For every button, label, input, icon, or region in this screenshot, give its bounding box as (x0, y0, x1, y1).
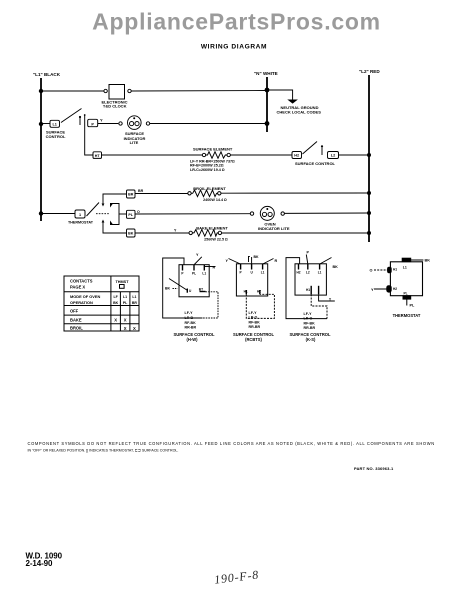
left terminal Y (387, 286, 391, 292)
wire to contact block (dotted) (96, 213, 110, 215)
junction L2-oven lite row (367, 211, 371, 215)
left outer wire (286, 258, 327, 319)
svg-text:BR: BR (138, 189, 144, 193)
svg-text:COMPONENT SYMBOLS DO NOT REFLE: COMPONENT SYMBOLS DO NOT REFLECT TRUE CO… (28, 441, 435, 446)
stub R right (205, 266, 216, 268)
blade R right (263, 259, 274, 265)
svg-text:BK: BK (425, 259, 431, 263)
svg-text:OPERATION: OPERATION (70, 300, 93, 305)
wire from left bottom terminal (311, 294, 327, 318)
svg-text:PL: PL (128, 213, 133, 217)
loop wires sub2 (246, 294, 274, 318)
box (179, 265, 209, 297)
contact tick with dot row2 (79, 116, 81, 118)
terminal circle clock left (104, 89, 107, 92)
svg-text:THERMOSTAT: THERMOSTAT (393, 313, 421, 318)
surface control sub-diagram 3 (K-S) (286, 255, 335, 319)
wire P to lamp (98, 123, 119, 125)
bracket middle stub (119, 213, 127, 215)
svg-text:RR-BR: RR-BR (249, 325, 261, 329)
svg-text:BR: BR (128, 193, 134, 197)
terminal box P (88, 119, 98, 126)
svg-text:L1: L1 (132, 295, 136, 299)
svg-text:HT: HT (95, 154, 101, 158)
top terminals (298, 264, 300, 270)
surface indicator lite lamp (128, 116, 142, 130)
terminal box HT row3 (93, 152, 102, 159)
svg-text:BK: BK (113, 301, 119, 305)
svg-text:"L1" BLACK: "L1" BLACK (33, 72, 61, 77)
svg-text:CONTACTS: CONTACTS (70, 278, 93, 283)
svg-text:L1: L1 (202, 272, 206, 276)
svg-text:LF: LF (113, 295, 118, 299)
surface control switch box L1 (50, 120, 60, 127)
svg-text:BK: BK (165, 287, 171, 291)
svg-text:LF-Y: LF-Y (249, 311, 258, 315)
thermostat bracket (110, 204, 119, 225)
surface control sub-diagram 2 (RCBTS) (229, 257, 275, 319)
switch blade row3 (303, 142, 318, 155)
wire thermostat row from L1 (41, 213, 75, 215)
node N feed line (266, 77, 268, 132)
svg-text:L1: L1 (318, 271, 322, 275)
svg-text:BK: BK (254, 255, 260, 259)
svg-text:Y: Y (196, 253, 199, 257)
thermostat contact block vertical bottom (103, 222, 127, 233)
svg-text:(RCBTS): (RCBTS) (245, 337, 262, 342)
node L1 feed line (40, 78, 42, 221)
terminal circle oven lamp right (281, 212, 284, 215)
svg-text:RF-BK: RF-BK (185, 321, 197, 325)
box (236, 264, 267, 296)
blade Y left (229, 259, 241, 265)
terminal circle broil right (218, 192, 221, 195)
svg-text:BK: BK (128, 232, 134, 236)
svg-text:BAKE: BAKE (70, 317, 82, 322)
svg-text:H1: H1 (244, 290, 248, 294)
junction L1-row1 (39, 89, 43, 93)
svg-text:Y: Y (226, 259, 229, 263)
BK dashes (173, 288, 178, 290)
left terminal O (388, 267, 392, 273)
bottom terminals (310, 286, 312, 295)
switch blade row2 (61, 109, 82, 123)
terminal circle surface element left (202, 153, 205, 156)
wire BK top right (411, 259, 424, 261)
terminal circle lamp right (146, 122, 149, 125)
bottom right terminal BT (200, 291, 206, 293)
svg-text:U: U (250, 271, 253, 275)
terminal box PL oven lite (127, 210, 136, 218)
wire broil to L2 (221, 192, 369, 194)
svg-text:L1: L1 (123, 295, 127, 299)
svg-text:O: O (370, 269, 373, 273)
switch blade thermostat (87, 203, 100, 217)
svg-text:CONTROL: CONTROL (46, 134, 66, 139)
junction N-row1 (265, 88, 270, 93)
svg-text:BROIL: BROIL (70, 326, 83, 331)
svg-text:SURFACE CONTROL: SURFACE CONTROL (295, 161, 336, 166)
svg-text:INDICATOR LITE: INDICATOR LITE (258, 226, 290, 231)
table contacts chart (64, 276, 139, 331)
blade BK (169, 279, 187, 291)
bottom terminal PL (403, 296, 411, 299)
resistor broil element (191, 190, 217, 197)
BK bracket top (249, 257, 250, 263)
svg-text:SURFACE ELEMENT: SURFACE ELEMENT (193, 146, 233, 151)
svg-text:WIRING DIAGRAM: WIRING DIAGRAM (201, 44, 267, 51)
wire bake row (135, 232, 189, 234)
linkage wire down to row3 (85, 116, 93, 156)
terminal box L2 (328, 152, 339, 159)
terminal box BK bake (127, 229, 136, 237)
terminal circle bake left (189, 231, 192, 234)
svg-text:P: P (307, 251, 310, 255)
svg-text:X: X (133, 326, 136, 331)
svg-text:PL: PL (123, 301, 128, 305)
svg-text:L1: L1 (403, 265, 407, 269)
terminal circle oven lamp left (250, 212, 253, 215)
blade BK right (320, 258, 332, 265)
svg-text:THMST: THMST (115, 280, 129, 284)
terminal circle surface element right (227, 153, 230, 156)
junction N-row2 (265, 121, 270, 126)
wire from right bottom terminal (319, 294, 335, 301)
oven indicator lite lamp (260, 206, 274, 220)
svg-text:O: O (137, 210, 140, 214)
terminal box BR broil (127, 190, 136, 198)
resistor bake element (192, 230, 218, 237)
node L2 feed line (368, 75, 370, 242)
right loop wire (203, 292, 219, 318)
svg-text:LR-C=2660W 19.4 Ω: LR-C=2660W 19.4 Ω (190, 168, 225, 172)
box (295, 264, 326, 295)
wire broil row (135, 193, 188, 195)
svg-text:1: 1 (79, 213, 81, 217)
svg-text:X: X (124, 318, 127, 323)
wire row3 to L2 (339, 154, 370, 156)
svg-text:X: X (124, 326, 127, 331)
svg-text:LF-Y: LF-Y (185, 311, 194, 315)
svg-text:LITE: LITE (130, 140, 139, 145)
svg-text:LR-B: LR-B (185, 316, 194, 320)
svg-text:BK: BK (333, 265, 339, 269)
svg-text:"N" WHITE: "N" WHITE (254, 71, 278, 76)
terminal circle bake right (218, 231, 221, 234)
svg-text:RF-BK: RF-BK (249, 320, 261, 324)
wire row1 left (41, 90, 104, 92)
wire lamp to N (150, 123, 267, 125)
ground arrowhead (287, 100, 298, 104)
svg-text:MODE OF OVEN: MODE OF OVEN (70, 294, 100, 299)
wire row2 stub from L1 (41, 123, 50, 125)
terminal circle clock right (128, 89, 131, 92)
top terminal (402, 258, 411, 261)
svg-text:LR-O: LR-O (304, 317, 313, 321)
svg-text:H2: H2 (257, 290, 261, 294)
svg-text:Y: Y (174, 229, 177, 233)
svg-text:H1: H1 (393, 268, 397, 272)
svg-text:T&D CLOCK: T&D CLOCK (103, 104, 127, 109)
wire row1 right (131, 90, 267, 93)
svg-text:P: P (181, 272, 184, 276)
svg-text:PL: PL (410, 304, 416, 308)
terminal box H2 (292, 152, 302, 159)
electronic T&D clock box U1 (109, 85, 125, 100)
left mid terminal (186, 289, 188, 293)
contact tick with dot row3 (321, 145, 323, 147)
svg-text:P: P (240, 271, 243, 275)
svg-text:P: P (91, 122, 94, 126)
svg-text:PART NO. 336963-1: PART NO. 336963-1 (354, 466, 394, 471)
svg-text:2400W 14.4 Ω: 2400W 14.4 Ω (203, 198, 227, 202)
wire bake to L2 (222, 232, 369, 234)
surface control sub-diagram 1 (H-W) (163, 257, 218, 318)
table thermostat symbol box (120, 285, 125, 289)
wire row3 left (102, 154, 203, 156)
thermostat contact block vertical top (103, 194, 127, 205)
svg-text:Y: Y (100, 117, 103, 122)
svg-text:THERMOSTAT: THERMOSTAT (68, 221, 94, 225)
svg-text:AppliancePartsPros.com: AppliancePartsPros.com (92, 9, 381, 35)
svg-text:Y: Y (371, 288, 374, 292)
svg-text:BR: BR (132, 301, 138, 305)
svg-text:"L2" RED: "L2" RED (359, 69, 380, 74)
svg-text:PAGE X: PAGE X (70, 284, 85, 289)
junction L1-thermostat row (39, 211, 43, 215)
svg-text:L2: L2 (331, 154, 335, 158)
svg-text:RF-B=2000W 25.2Ω: RF-B=2000W 25.2Ω (190, 164, 224, 168)
svg-text:R: R (275, 259, 278, 263)
svg-text:PL: PL (192, 272, 196, 276)
svg-text:BROIL ELEMENT: BROIL ELEMENT (193, 186, 226, 191)
terminal circle lamp left (119, 122, 122, 125)
svg-text:H2: H2 (296, 271, 300, 275)
svg-text:RF-BK: RF-BK (304, 321, 316, 325)
svg-text:(H-W): (H-W) (187, 337, 199, 342)
svg-text:(K-S): (K-S) (306, 337, 316, 342)
svg-text:L1: L1 (261, 271, 265, 275)
thermostat detail sub-diagram (374, 258, 423, 305)
wire N to ground (267, 90, 293, 100)
svg-text:LF-Y: LF-Y (304, 312, 313, 316)
junction L2-row3 (367, 153, 371, 157)
box (390, 262, 422, 296)
svg-text:190-F-8: 190-F-8 (213, 567, 259, 586)
svg-text:L2: L2 (306, 271, 310, 275)
resistor surface element (206, 152, 227, 158)
thermostat switch box 1 (75, 210, 85, 218)
blade P up (306, 255, 308, 265)
svg-text:IN "OFF" OR RELAXED POSITION.: IN "OFF" OR RELAXED POSITION. ][ INDICAT… (28, 447, 179, 452)
top terminals (182, 265, 184, 271)
svg-text:BAKE ELEMENT: BAKE ELEMENT (196, 225, 228, 230)
junction L2-broil row (367, 191, 371, 195)
bottom terminals H1 H2 (245, 290, 247, 294)
svg-text:LR-O: LR-O (249, 316, 258, 320)
svg-text:H1: H1 (306, 288, 310, 292)
svg-text:PL: PL (404, 292, 408, 296)
svg-text:H2: H2 (294, 154, 299, 158)
svg-text:OFF: OFF (70, 309, 79, 314)
junction L2-bake row (367, 231, 371, 235)
svg-text:RR-BR: RR-BR (185, 326, 197, 330)
wire oven lamp to L2 (284, 212, 369, 214)
svg-text:2560W 22.5 Ω: 2560W 22.5 Ω (204, 238, 228, 242)
svg-text:RR-BR: RR-BR (304, 326, 316, 330)
wire oven lite row (135, 213, 250, 215)
svg-text:X: X (114, 318, 117, 323)
svg-text:2-14-90: 2-14-90 (26, 559, 54, 568)
blade Y top (194, 257, 202, 265)
outer loop wire (163, 258, 203, 318)
wire row3 right (230, 154, 292, 156)
terminal circle broil left (188, 192, 191, 195)
junction L1-row2 (39, 122, 43, 126)
svg-text:H2: H2 (393, 287, 397, 291)
svg-text:U: U (189, 289, 192, 293)
top terminals (240, 264, 242, 270)
svg-text:BT: BT (199, 288, 203, 292)
svg-text:CHECK LOCAL CODES: CHECK LOCAL CODES (277, 109, 322, 114)
svg-text:R: R (213, 265, 216, 269)
svg-text:L1: L1 (52, 123, 56, 127)
